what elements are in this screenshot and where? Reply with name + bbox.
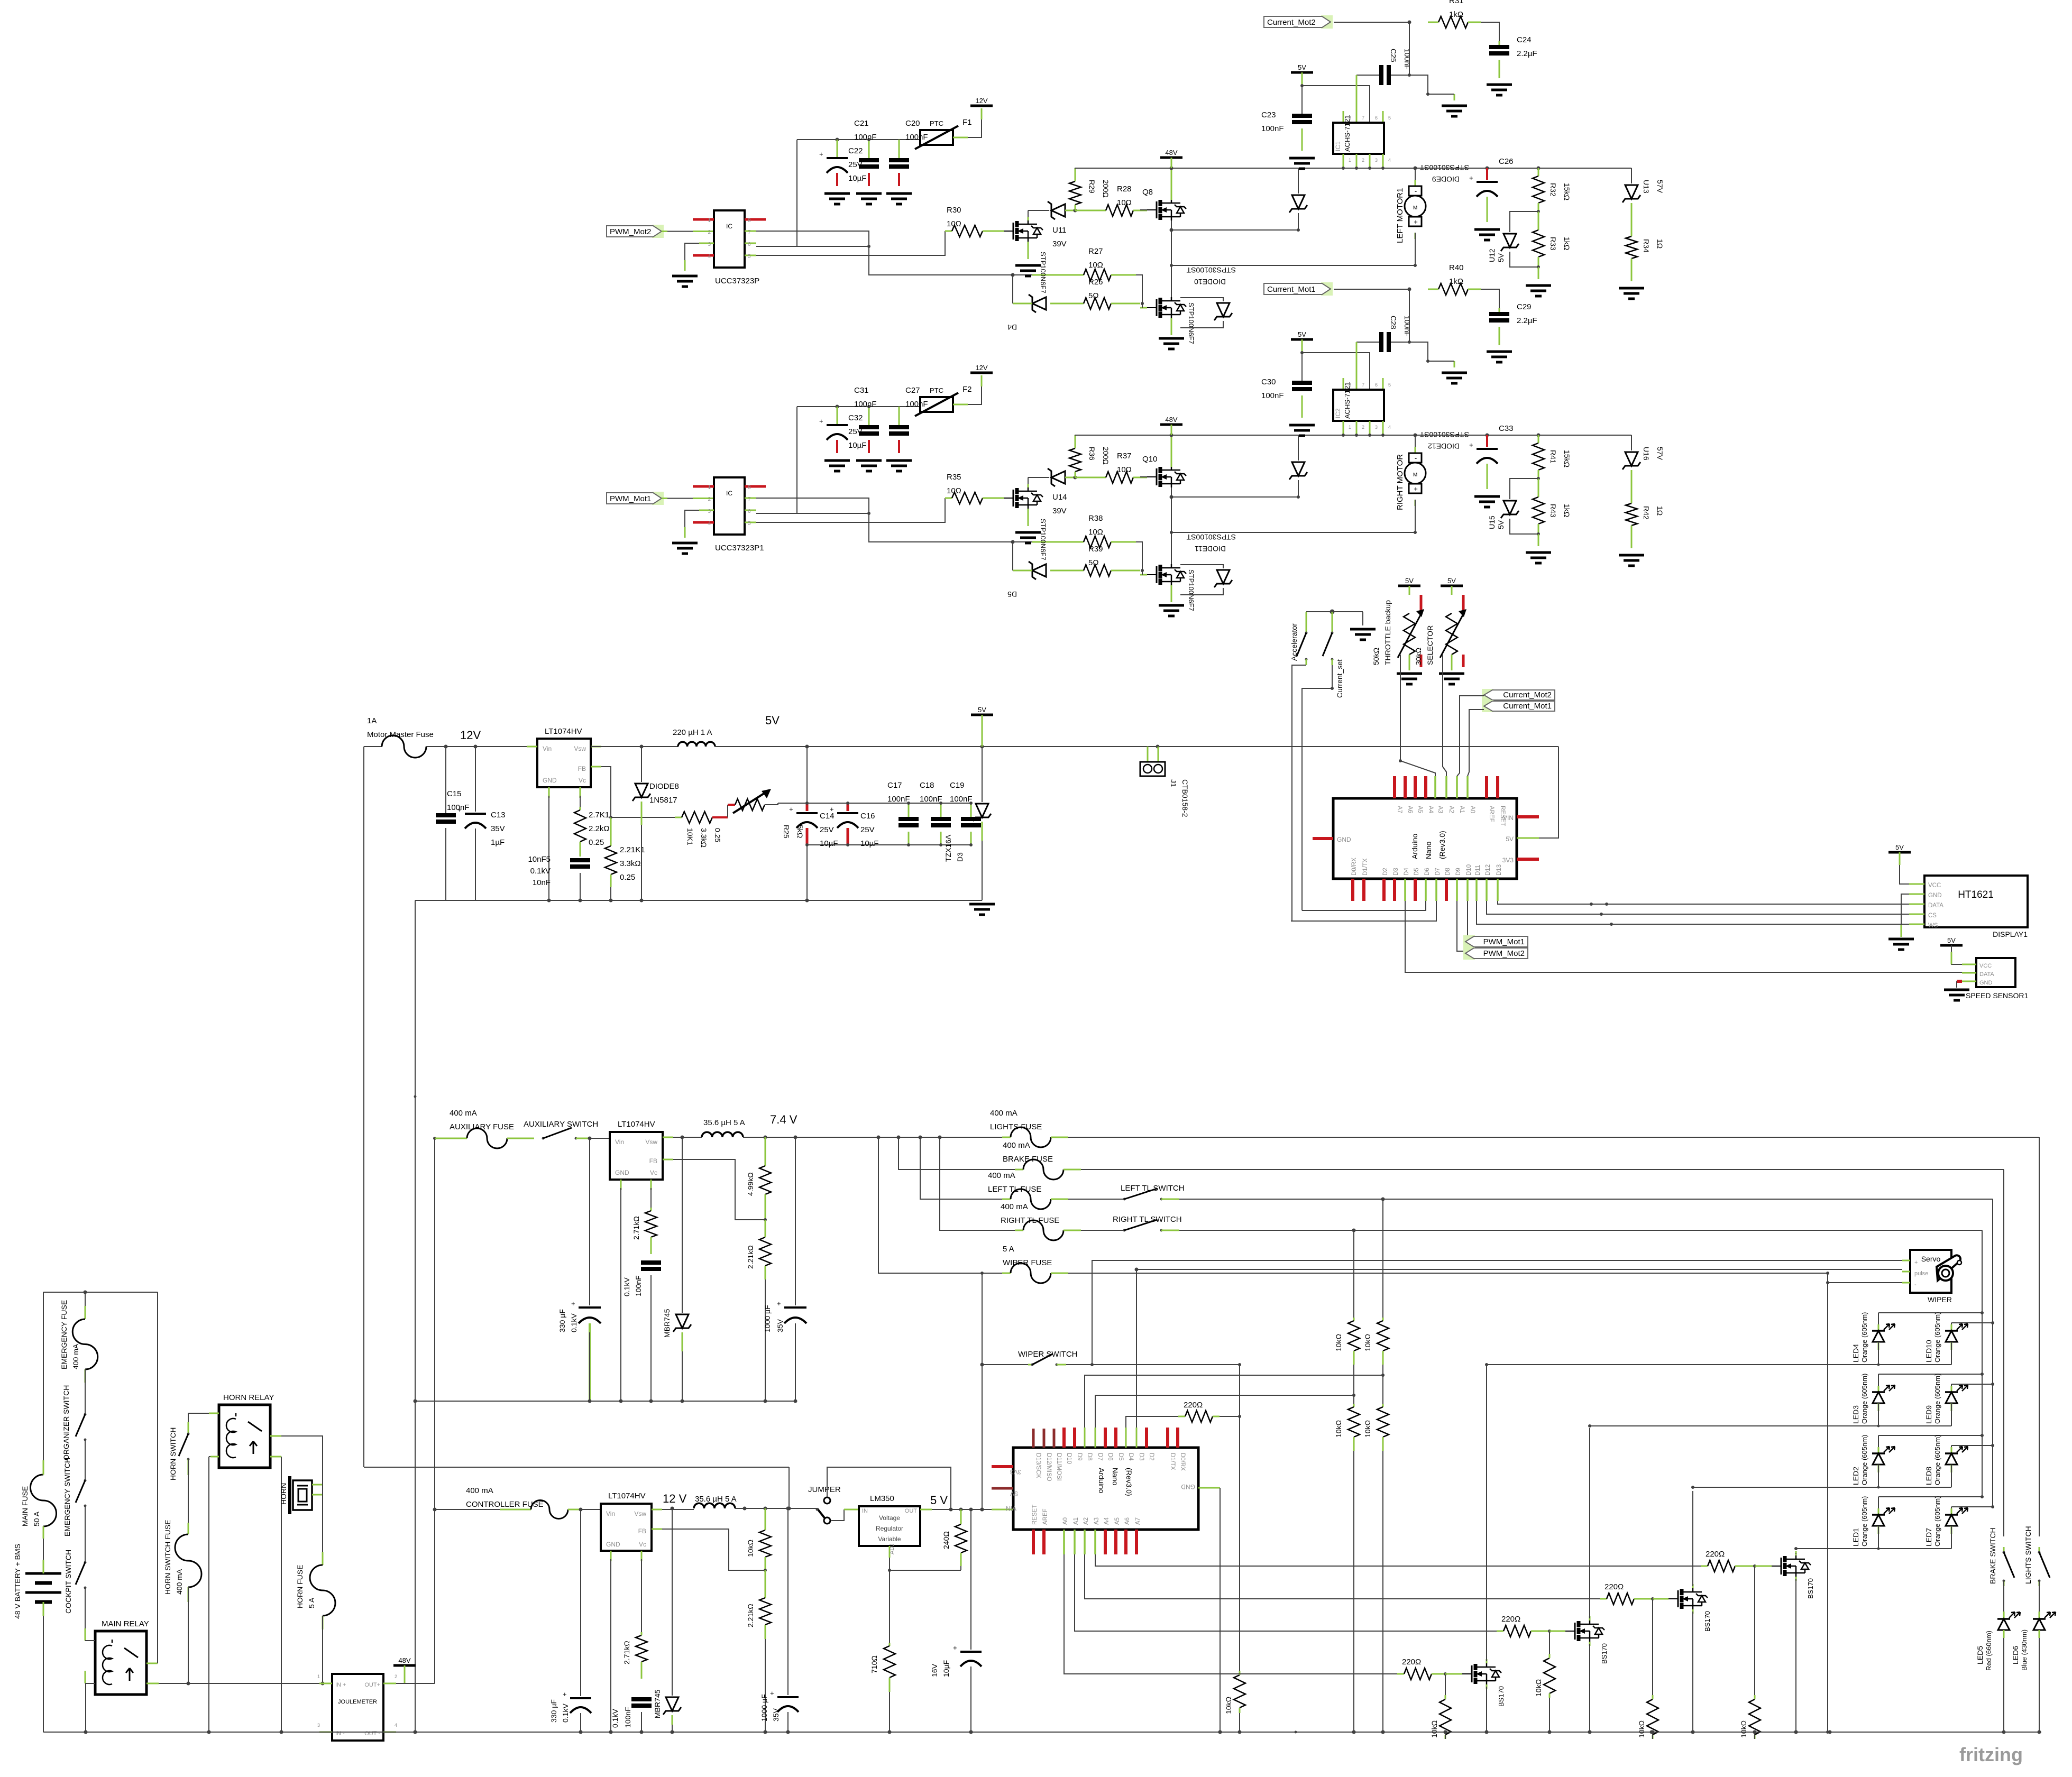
svg-text:1Ω: 1Ω [1656, 239, 1664, 248]
svg-text:(Rev3.0): (Rev3.0) [1438, 831, 1446, 859]
svg-text:R40: R40 [1449, 263, 1464, 272]
svg-text:D2: D2 [1382, 868, 1389, 876]
svg-text:GND: GND [1979, 980, 1993, 986]
svg-text:AUXILIARY SWITCH: AUXILIARY SWITCH [524, 1120, 598, 1129]
svg-text:fritzing: fritzing [1959, 1744, 2023, 1765]
svg-text:8: 8 [748, 485, 751, 491]
svg-text:A4: A4 [1104, 1517, 1110, 1525]
svg-text:+: + [571, 1300, 575, 1308]
svg-text:+: + [819, 150, 823, 158]
svg-text:1: 1 [708, 218, 711, 224]
svg-text:6: 6 [1375, 382, 1378, 388]
svg-text:+: + [777, 1300, 781, 1308]
svg-text:30kΩ: 30kΩ [1414, 648, 1423, 665]
svg-text:220Ω: 220Ω [1605, 1582, 1624, 1591]
svg-text:WIPER: WIPER [1928, 1295, 1952, 1304]
svg-text:6: 6 [1375, 115, 1378, 121]
svg-text:220Ω: 220Ω [1706, 1550, 1725, 1559]
svg-text:GND: GND [615, 1169, 629, 1176]
svg-text:10kΩ: 10kΩ [1430, 1720, 1438, 1738]
svg-text:+: + [770, 1689, 774, 1697]
svg-text:UCC37323P1: UCC37323P1 [715, 544, 764, 553]
svg-text:2.71kΩ: 2.71kΩ [632, 1216, 640, 1240]
svg-text:BRAKE FUSE: BRAKE FUSE [1003, 1155, 1053, 1164]
svg-text:JUMPER: JUMPER [808, 1485, 841, 1494]
svg-text:A2: A2 [1448, 806, 1454, 813]
svg-text:D5: D5 [1414, 868, 1420, 876]
svg-text:LEFT MOTOR1: LEFT MOTOR1 [1396, 188, 1405, 243]
svg-text:5: 5 [748, 521, 751, 527]
svg-text:DIODE12: DIODE12 [1428, 442, 1460, 450]
svg-text:C22: C22 [848, 146, 863, 155]
svg-text:SPEED SENSOR1: SPEED SENSOR1 [1966, 991, 2028, 1000]
svg-text:LED2: LED2 [1851, 1467, 1860, 1485]
svg-text:LT1074HV: LT1074HV [618, 1120, 655, 1129]
svg-text:IN +: IN + [335, 1682, 346, 1688]
svg-text:2: 2 [708, 496, 711, 502]
svg-text:35.6 µH 5 A: 35.6 µH 5 A [695, 1495, 737, 1504]
svg-text:Current_set: Current_set [1335, 659, 1344, 698]
svg-text:HORN SWITCH FUSE: HORN SWITCH FUSE [163, 1520, 172, 1595]
svg-text:12 V: 12 V [663, 1492, 687, 1505]
svg-text:LED5: LED5 [1976, 1646, 1984, 1664]
svg-text:GND: GND [1928, 892, 1942, 899]
svg-text:LIGHTS FUSE: LIGHTS FUSE [990, 1122, 1042, 1131]
svg-text:400 mA: 400 mA [988, 1171, 1015, 1180]
svg-text:5Ω: 5Ω [1088, 291, 1099, 300]
svg-text:LIGHTS SWITCH: LIGHTS SWITCH [2024, 1526, 2032, 1584]
svg-text:100nF: 100nF [1403, 316, 1411, 337]
svg-text:330 µF: 330 µF [549, 1699, 558, 1723]
svg-text:5V: 5V [1506, 835, 1514, 843]
svg-text:STP100N6F7: STP100N6F7 [1039, 519, 1047, 560]
svg-text:100nF: 100nF [887, 795, 910, 804]
svg-text:2: 2 [1362, 425, 1364, 430]
svg-text:Vsw: Vsw [634, 1510, 646, 1517]
svg-text:Vsw: Vsw [574, 745, 586, 752]
svg-text:OUT: OUT [905, 1508, 918, 1514]
svg-text:D2: D2 [1148, 1453, 1154, 1461]
svg-text:400 mA: 400 mA [71, 1343, 80, 1369]
svg-text:5V: 5V [1298, 330, 1306, 338]
svg-text:Current_Mot1: Current_Mot1 [1503, 702, 1552, 711]
svg-text:LED10: LED10 [1924, 1340, 1933, 1362]
svg-text:AREF: AREF [1042, 1508, 1049, 1525]
svg-text:C26: C26 [1499, 157, 1514, 166]
svg-text:STPS30100ST: STPS30100ST [1186, 266, 1236, 274]
svg-text:7.4 V: 7.4 V [770, 1113, 797, 1126]
svg-text:PWM_Mot1: PWM_Mot1 [610, 494, 651, 503]
svg-text:100nF: 100nF [1261, 124, 1284, 133]
svg-text:100nF: 100nF [950, 795, 973, 804]
svg-text:1: 1 [1349, 158, 1351, 163]
svg-text:400 mA: 400 mA [175, 1569, 184, 1595]
svg-text:RIGHT MOTOR: RIGHT MOTOR [1396, 454, 1405, 510]
svg-text:IN -: IN - [335, 1730, 345, 1737]
svg-text:50 A: 50 A [32, 1511, 41, 1526]
svg-text:D5: D5 [1117, 1453, 1124, 1461]
svg-text:100nF: 100nF [854, 133, 877, 142]
svg-text:2.7K1: 2.7K1 [589, 811, 609, 820]
svg-text:10kΩ: 10kΩ [1224, 1697, 1233, 1714]
svg-text:220 µH 1 A: 220 µH 1 A [673, 728, 712, 737]
svg-text:-: - [1415, 187, 1417, 195]
svg-text:7: 7 [748, 496, 751, 502]
svg-text:+: + [819, 417, 823, 425]
svg-text:R34: R34 [1642, 239, 1651, 253]
svg-text:EMERGENCY SWITCH: EMERGENCY SWITCH [63, 1458, 71, 1536]
svg-text:2.21kΩ: 2.21kΩ [746, 1245, 755, 1269]
svg-text:5 V: 5 V [930, 1494, 948, 1507]
svg-text:C18: C18 [920, 781, 934, 790]
svg-text:Orange (605nm): Orange (605nm) [1933, 1312, 1941, 1362]
svg-text:1A: 1A [367, 716, 377, 725]
svg-text:5V: 5V [1010, 1490, 1018, 1497]
svg-text:D6: D6 [1424, 868, 1431, 876]
svg-text:FB: FB [578, 765, 586, 772]
svg-text:10kΩ: 10kΩ [1363, 1420, 1372, 1438]
svg-text:220Ω: 220Ω [1402, 1658, 1421, 1666]
svg-text:BS170: BS170 [1807, 1578, 1814, 1599]
svg-text:3.3kΩ: 3.3kΩ [620, 859, 641, 868]
svg-text:Arduino: Arduino [1410, 834, 1419, 859]
svg-text:10nF5: 10nF5 [528, 855, 551, 864]
svg-text:10µF: 10µF [942, 1660, 950, 1677]
svg-text:0.1kV: 0.1kV [530, 867, 551, 876]
svg-text:15kΩ: 15kΩ [1563, 183, 1571, 200]
svg-text:VCC: VCC [1979, 963, 1992, 969]
svg-text:A1: A1 [1459, 806, 1465, 813]
svg-text:D8: D8 [1086, 1453, 1093, 1461]
svg-text:D3: D3 [1138, 1453, 1144, 1461]
svg-text:C27: C27 [905, 386, 920, 395]
svg-text:10Ω: 10Ω [1088, 261, 1103, 270]
svg-text:5: 5 [1388, 382, 1391, 388]
svg-text:DATA: DATA [1928, 903, 1943, 909]
svg-text:C28: C28 [1389, 316, 1398, 329]
svg-text:35V: 35V [491, 824, 505, 833]
svg-text:57V: 57V [1656, 447, 1664, 461]
svg-text:0.25: 0.25 [713, 828, 722, 842]
svg-text:R33: R33 [1549, 237, 1557, 251]
svg-text:C30: C30 [1261, 378, 1276, 386]
svg-text:Vc: Vc [579, 777, 586, 784]
svg-text:D5: D5 [1007, 590, 1017, 599]
svg-text:7: 7 [748, 229, 751, 235]
svg-text:10µF: 10µF [848, 441, 867, 450]
svg-text:A6: A6 [1407, 806, 1413, 813]
svg-text:2.21kΩ: 2.21kΩ [746, 1604, 755, 1627]
svg-text:330 µF: 330 µF [558, 1309, 566, 1332]
svg-text:0.25: 0.25 [589, 838, 604, 847]
svg-text:D0/RX: D0/RX [1351, 858, 1358, 876]
svg-text:16V: 16V [930, 1663, 939, 1677]
svg-text:Orange (605nm): Orange (605nm) [1860, 1374, 1868, 1424]
svg-text:pulse: pulse [1914, 1270, 1928, 1277]
svg-text:2.2µF: 2.2µF [1517, 49, 1537, 58]
svg-text:U11: U11 [1052, 226, 1066, 235]
svg-text:100nF: 100nF [905, 133, 928, 142]
svg-text:R28: R28 [1117, 185, 1132, 194]
svg-text:GND: GND [1337, 836, 1351, 843]
svg-text:4: 4 [395, 1723, 397, 1728]
svg-text:C13: C13 [491, 811, 506, 820]
svg-text:Orange (605nm): Orange (605nm) [1933, 1374, 1941, 1424]
svg-text:D9: D9 [1455, 868, 1462, 876]
svg-text:DIODE11: DIODE11 [1195, 545, 1226, 553]
svg-text:IC1: IC1 [1334, 141, 1342, 151]
svg-text:200Ω: 200Ω [1102, 180, 1110, 198]
svg-text:48V: 48V [1165, 149, 1177, 156]
svg-text:+: + [953, 1644, 957, 1652]
svg-text:+: + [457, 806, 462, 814]
svg-text:RESET: RESET [1032, 1505, 1038, 1525]
svg-text:400 mA: 400 mA [990, 1109, 1017, 1118]
svg-text:LED8: LED8 [1924, 1467, 1933, 1485]
svg-text:Nano: Nano [1111, 1468, 1120, 1486]
svg-text:D3: D3 [956, 852, 964, 862]
svg-text:A3: A3 [1094, 1517, 1100, 1525]
svg-text:M: M [1413, 472, 1417, 478]
svg-text:DIODE10: DIODE10 [1194, 278, 1226, 286]
svg-text:100nF: 100nF [920, 795, 942, 804]
svg-text:10kΩ: 10kΩ [1363, 1334, 1372, 1351]
svg-text:+: + [789, 805, 793, 813]
svg-text:5V: 5V [765, 714, 780, 727]
svg-text:0.1kV: 0.1kV [611, 1709, 619, 1728]
svg-text:Blue (430nm): Blue (430nm) [2020, 1629, 2028, 1671]
svg-text:710Ω: 710Ω [870, 1655, 878, 1673]
svg-text:A0: A0 [1062, 1517, 1069, 1525]
svg-text:C29: C29 [1517, 302, 1532, 311]
svg-text:A6: A6 [1124, 1517, 1131, 1525]
svg-text:F1: F1 [962, 118, 972, 127]
svg-text:FB: FB [638, 1527, 646, 1535]
svg-text:Vin: Vin [606, 1510, 615, 1517]
svg-text:8: 8 [748, 218, 751, 224]
svg-text:D11/MOSI: D11/MOSI [1056, 1453, 1062, 1481]
svg-text:15kΩ: 15kΩ [1563, 450, 1571, 467]
svg-text:2: 2 [1362, 158, 1364, 163]
svg-text:Q10: Q10 [1142, 455, 1157, 464]
svg-text:M: M [1413, 205, 1417, 211]
svg-text:5 A: 5 A [307, 1597, 316, 1608]
svg-text:5V: 5V [1895, 843, 1904, 851]
svg-text:HT1621: HT1621 [1958, 889, 1994, 900]
svg-text:10Ω: 10Ω [1117, 198, 1132, 207]
svg-text:4: 4 [708, 254, 711, 260]
svg-text:6: 6 [748, 242, 751, 247]
svg-text:C32: C32 [848, 413, 863, 422]
svg-text:R36: R36 [1088, 447, 1096, 461]
svg-text:100nF: 100nF [1403, 49, 1411, 70]
svg-text:R37: R37 [1117, 452, 1132, 461]
svg-text:MBR745: MBR745 [653, 1689, 662, 1718]
svg-text:Q8: Q8 [1142, 188, 1153, 197]
svg-text:Nano: Nano [1424, 841, 1433, 859]
svg-text:1kΩ: 1kΩ [1449, 277, 1463, 286]
svg-text:Arduino: Arduino [1097, 1468, 1106, 1493]
svg-text:C16: C16 [860, 812, 875, 821]
svg-text:1Ω: 1Ω [1656, 506, 1664, 515]
svg-text:D0/RX: D0/RX [1179, 1453, 1186, 1471]
svg-text:10kΩ: 10kΩ [1637, 1720, 1646, 1738]
svg-text:5: 5 [748, 254, 751, 260]
svg-text:DIODE8: DIODE8 [649, 782, 679, 791]
svg-text:A4: A4 [1427, 806, 1434, 814]
svg-text:+: + [563, 1690, 567, 1698]
svg-text:GND: GND [606, 1541, 620, 1548]
svg-text:OUT -: OUT - [364, 1730, 380, 1737]
svg-text:BRAKE SWITCH: BRAKE SWITCH [1988, 1527, 1997, 1584]
svg-text:FB: FB [649, 1157, 657, 1165]
svg-text:0.1kV: 0.1kV [622, 1277, 631, 1296]
svg-text:+: + [1469, 441, 1473, 449]
svg-text:R39: R39 [1088, 545, 1103, 554]
svg-text:12V: 12V [975, 97, 987, 105]
svg-text:A7: A7 [1135, 1517, 1141, 1525]
svg-text:R42: R42 [1642, 506, 1651, 520]
svg-text:C21: C21 [854, 119, 869, 128]
svg-text:WIPER SWITCH: WIPER SWITCH [1018, 1350, 1078, 1359]
svg-text:A1: A1 [1073, 1517, 1079, 1525]
svg-text:12V: 12V [460, 729, 481, 742]
svg-text:IC2: IC2 [1334, 408, 1342, 418]
svg-text:0.25: 0.25 [620, 873, 635, 882]
svg-text:1kΩ: 1kΩ [1563, 504, 1571, 517]
svg-text:Servo: Servo [1921, 1255, 1941, 1263]
svg-text:ORGANIZER SWITCH: ORGANIZER SWITCH [62, 1385, 70, 1460]
svg-text:LED1: LED1 [1851, 1528, 1860, 1546]
svg-text:D10: D10 [1466, 864, 1472, 876]
svg-text:C19: C19 [950, 781, 965, 790]
svg-text:-: - [1415, 454, 1417, 462]
svg-text:39V: 39V [1052, 507, 1067, 515]
svg-text:4.99kΩ: 4.99kΩ [746, 1172, 755, 1196]
svg-text:LT1074HV: LT1074HV [545, 727, 582, 736]
svg-text:3.3kΩ: 3.3kΩ [700, 828, 708, 848]
svg-text:1: 1 [317, 1674, 320, 1679]
svg-text:3V3: 3V3 [1010, 1468, 1022, 1476]
svg-text:D10: D10 [1066, 1453, 1072, 1464]
svg-text:12V: 12V [975, 364, 987, 372]
svg-text:JOULEMETER: JOULEMETER [338, 1699, 377, 1705]
svg-text:LT1074HV: LT1074HV [608, 1491, 646, 1500]
svg-text:AREF: AREF [1488, 806, 1495, 822]
svg-text:3V3: 3V3 [1502, 857, 1514, 864]
svg-text:10kΩ: 10kΩ [1334, 1334, 1343, 1351]
svg-text:C15: C15 [447, 789, 462, 798]
svg-text:IC: IC [726, 223, 732, 230]
svg-text:8: 8 [1349, 382, 1351, 388]
svg-text:PWM_Mot2: PWM_Mot2 [1483, 949, 1525, 958]
svg-text:LEFT TL FUSE: LEFT TL FUSE [988, 1185, 1041, 1194]
svg-text:D7: D7 [1435, 868, 1441, 876]
svg-text:10Ω: 10Ω [947, 219, 961, 228]
svg-text:DISPLAY1: DISPLAY1 [1993, 930, 2028, 938]
svg-text:5V: 5V [1497, 520, 1505, 529]
svg-text:Vc: Vc [650, 1169, 657, 1176]
svg-text:BS170: BS170 [1600, 1643, 1608, 1664]
svg-text:2: 2 [395, 1674, 397, 1679]
svg-text:4: 4 [1388, 425, 1391, 430]
svg-text:10Ω: 10Ω [1088, 528, 1103, 537]
svg-text:STP100N6F7: STP100N6F7 [1039, 252, 1047, 293]
svg-text:+: + [830, 805, 834, 813]
svg-text:100nF: 100nF [624, 1707, 632, 1728]
svg-text:U14: U14 [1052, 493, 1067, 502]
svg-text:VIN: VIN [1503, 814, 1514, 822]
svg-text:VCC: VCC [1928, 882, 1941, 889]
svg-text:Vsw: Vsw [645, 1138, 657, 1146]
svg-text:4: 4 [1388, 158, 1391, 163]
svg-text:C17: C17 [887, 781, 902, 790]
svg-text:D12: D12 [1485, 864, 1491, 876]
svg-text:25V: 25V [820, 825, 834, 834]
svg-text:R26: R26 [1088, 278, 1103, 287]
svg-text:R35: R35 [947, 473, 961, 482]
svg-text:+: + [1414, 218, 1418, 226]
svg-text:D1/TX: D1/TX [1362, 858, 1369, 876]
svg-text:10kΩ: 10kΩ [1334, 1420, 1343, 1438]
svg-text:R27: R27 [1088, 247, 1103, 256]
svg-text:Current_Mot2: Current_Mot2 [1267, 18, 1316, 27]
svg-text:IN: IN [862, 1508, 868, 1514]
svg-text:ADJ: ADJ [889, 1543, 895, 1554]
svg-text:1: 1 [708, 485, 711, 491]
svg-text:R25: R25 [782, 825, 791, 839]
svg-text:DATA: DATA [1979, 971, 1994, 978]
svg-text:HORN: HORN [279, 1483, 288, 1505]
svg-text:J1: J1 [1169, 779, 1178, 787]
svg-text:3: 3 [708, 242, 711, 247]
svg-text:3: 3 [1375, 425, 1378, 430]
svg-text:LED6: LED6 [2011, 1646, 2020, 1664]
svg-text:(Rev3.0): (Rev3.0) [1125, 1468, 1133, 1496]
svg-text:10µF: 10µF [820, 839, 838, 848]
svg-text:U15: U15 [1488, 515, 1496, 529]
svg-text:2: 2 [708, 229, 711, 235]
svg-text:400 mA: 400 mA [466, 1486, 493, 1495]
svg-text:STPS30100ST: STPS30100ST [1186, 533, 1236, 541]
svg-text:PWM_Mot1: PWM_Mot1 [1483, 937, 1525, 946]
svg-text:GND: GND [1181, 1483, 1195, 1490]
svg-text:D4: D4 [1404, 868, 1410, 876]
svg-text:D4: D4 [1007, 323, 1017, 332]
svg-text:BS170: BS170 [1703, 1611, 1711, 1632]
svg-text:5Ω: 5Ω [1088, 558, 1099, 567]
svg-text:HORN FUSE: HORN FUSE [296, 1565, 304, 1608]
svg-text:Vc: Vc [639, 1541, 646, 1548]
svg-text:35V: 35V [772, 1708, 780, 1721]
svg-text:COCKPIT SWITCH: COCKPIT SWITCH [64, 1550, 72, 1614]
svg-text:10Ω: 10Ω [947, 486, 961, 495]
svg-text:MBR745: MBR745 [663, 1309, 671, 1338]
svg-text:BS170: BS170 [1497, 1686, 1505, 1707]
svg-text:25V: 25V [860, 825, 875, 834]
svg-text:6: 6 [748, 509, 751, 514]
svg-text:0.1kV: 0.1kV [561, 1704, 570, 1723]
svg-text:DIODE9: DIODE9 [1432, 175, 1460, 183]
svg-text:1kΩ: 1kΩ [1449, 10, 1463, 19]
svg-text:100nF: 100nF [905, 400, 928, 409]
svg-text:A5: A5 [1417, 806, 1423, 813]
svg-text:1µF: 1µF [491, 838, 505, 847]
svg-text:F2: F2 [962, 385, 972, 394]
svg-text:-: - [1914, 1282, 1917, 1288]
svg-text:D9: D9 [1076, 1453, 1083, 1461]
svg-text:D1/TX: D1/TX [1169, 1453, 1176, 1470]
